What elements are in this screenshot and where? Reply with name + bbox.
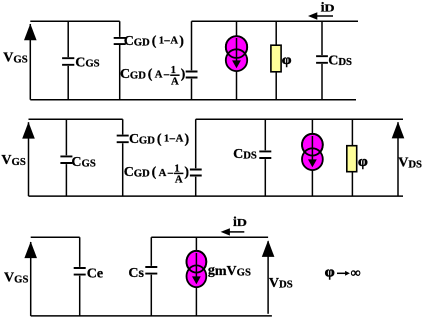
svg-text:CGS: CGS xyxy=(75,55,99,70)
svg-text:): ) xyxy=(185,132,190,147)
capacitor CGS row2 xyxy=(60,119,72,196)
svg-text:1: 1 xyxy=(171,64,176,76)
svg-text:A: A xyxy=(171,75,179,87)
wire: row1 top rail right xyxy=(192,20,359,22)
svg-text:(: ( xyxy=(148,67,153,82)
svg-text:C: C xyxy=(129,132,139,147)
wire: row3 bottom rail xyxy=(31,315,272,317)
svg-text:C: C xyxy=(124,34,134,49)
source VGS row3 (arrow up) xyxy=(24,242,37,316)
svg-text:1: 1 xyxy=(174,162,179,174)
svg-text:C: C xyxy=(120,67,130,82)
svg-text:CDS: CDS xyxy=(233,147,257,162)
svg-text:φ: φ xyxy=(282,52,292,67)
capacitor CGS row1 xyxy=(62,21,74,99)
label CGD(1-A) row2 xyxy=(129,132,190,147)
svg-text:(: ( xyxy=(157,132,162,147)
resistor phi row2 (yellow box) xyxy=(347,119,357,196)
svg-text:gmVGS: gmVGS xyxy=(208,263,251,279)
svg-text:GD: GD xyxy=(134,37,150,49)
svg-text:A: A xyxy=(176,133,184,145)
capacitor Ce row3 xyxy=(74,237,86,316)
arrow iD row1 xyxy=(308,12,333,19)
capacitor Cs row3 xyxy=(145,237,157,316)
current source row1 xyxy=(226,21,247,99)
wire: row1 bottom rail xyxy=(30,99,356,101)
svg-text:): ) xyxy=(184,165,189,180)
svg-text:–: – xyxy=(163,35,170,47)
capacitor CGD(1-A) row2 xyxy=(117,119,129,196)
capacitor CGD(A-1/A) row2 xyxy=(190,119,202,196)
source VDS row3 (arrow up) xyxy=(262,240,275,314)
svg-text:CDS: CDS xyxy=(328,54,352,69)
svg-text:GD: GD xyxy=(130,70,146,82)
wire: row3 top rail left xyxy=(31,236,80,238)
wire: row2 bottom rail xyxy=(29,195,404,197)
source VGS row2 (arrow up) xyxy=(22,122,35,196)
svg-text:CGS: CGS xyxy=(71,155,95,170)
svg-text:A: A xyxy=(155,69,163,81)
current source gmVGS row3 xyxy=(187,237,207,316)
wire: row2 top rail left xyxy=(29,118,123,120)
svg-text:1: 1 xyxy=(159,35,164,47)
wire: row2 top rail right xyxy=(196,118,403,120)
label CGD(A-1/A) row1 xyxy=(120,64,186,87)
svg-text:VGS: VGS xyxy=(1,153,25,168)
resistor phi row1 (yellow box) xyxy=(271,21,281,99)
arrow iD row3 xyxy=(221,228,245,235)
capacitor CGD(1-A) row1 xyxy=(114,21,126,99)
capacitor CGD(A-1/A) row1 xyxy=(186,21,198,99)
wire: row1 top rail left xyxy=(30,20,119,22)
capacitor CDS row2 xyxy=(259,119,271,196)
current source row2 xyxy=(302,119,323,196)
source VDS row2 (arrow up) xyxy=(392,122,405,196)
svg-text:iD: iD xyxy=(321,1,335,16)
svg-text:): ) xyxy=(179,34,184,49)
svg-text:φ: φ xyxy=(358,153,368,169)
svg-text:(: ( xyxy=(152,34,157,49)
label CGD(A-1/A) row2 xyxy=(124,162,190,185)
svg-text:Cs: Cs xyxy=(128,266,144,281)
svg-text:VDS: VDS xyxy=(269,276,293,291)
svg-text:VGS: VGS xyxy=(3,51,27,66)
svg-text:VDS: VDS xyxy=(398,156,422,171)
wire: row3 top rail right xyxy=(151,236,268,238)
svg-text:1: 1 xyxy=(164,133,169,145)
svg-text:VGS: VGS xyxy=(4,271,28,286)
svg-text:GD: GD xyxy=(139,135,155,147)
svg-text:∞: ∞ xyxy=(351,265,361,280)
svg-text:–: – xyxy=(163,69,170,81)
source VGS row1 (arrow up) xyxy=(24,24,37,100)
svg-text:A: A xyxy=(175,174,183,186)
svg-text:φ: φ xyxy=(325,264,335,280)
svg-text:A: A xyxy=(159,167,167,179)
svg-text:A: A xyxy=(170,35,178,47)
svg-text:C: C xyxy=(124,165,134,180)
svg-text:–: – xyxy=(167,167,174,179)
capacitor CDS row1 xyxy=(316,21,328,99)
svg-text:Ce: Ce xyxy=(87,267,103,282)
svg-text:GD: GD xyxy=(134,168,150,180)
svg-text:): ) xyxy=(181,67,186,82)
svg-text:–: – xyxy=(169,133,176,145)
label CGD(1-A) row1 xyxy=(124,34,185,49)
svg-text:(: ( xyxy=(152,165,157,180)
svg-text:iD: iD xyxy=(233,215,247,230)
